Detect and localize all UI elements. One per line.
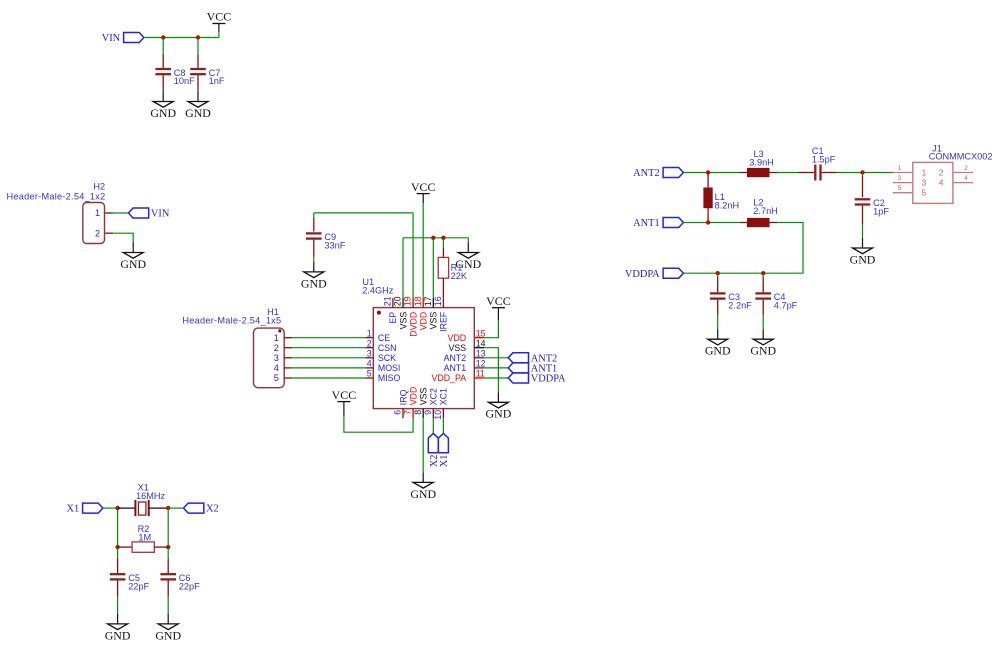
U1 pin 14 VSS stub [474, 347, 484, 349]
wire to C7 [197, 38, 199, 54]
U1 pin 17 VSS stub [432, 298, 434, 308]
inductor L2 [748, 218, 770, 226]
L2 left lead [740, 222, 748, 224]
svg-text:16MHz: 16MHz [136, 491, 166, 501]
svg-text:22pF: 22pF [128, 581, 149, 591]
svg-text:4.7pF: 4.7pF [774, 301, 798, 311]
IC U1 body [373, 308, 474, 409]
wire to R1 [442, 238, 444, 248]
U1 pin 13 ANT2 stub [474, 357, 484, 359]
ground GND (C7) [185, 92, 211, 120]
wire pin 14 VSS to ground [484, 348, 499, 393]
inductor L1 labels [715, 192, 740, 210]
svg-text:1: 1 [274, 333, 279, 343]
wire C4 top [762, 273, 764, 277]
svg-text:GND: GND [185, 106, 211, 120]
wire H1.2 to U1 [292, 347, 365, 349]
svg-text:GND: GND [410, 487, 436, 501]
svg-text:1: 1 [922, 167, 927, 177]
H1 pin 5 stub [284, 377, 292, 379]
junction node C8 [161, 35, 165, 39]
wire pin 20 VSS up [402, 238, 404, 298]
power VCC [207, 10, 232, 32]
svg-text:3: 3 [922, 178, 927, 188]
svg-text:VIN: VIN [151, 209, 170, 220]
svg-text:VDDPA: VDDPA [625, 269, 660, 280]
U1 pin 9 XC2 stub [432, 409, 434, 419]
wire C3 top [717, 273, 719, 277]
connector H2 [83, 203, 105, 244]
L1 bottom lead [707, 208, 709, 223]
svg-text:15: 15 [476, 328, 486, 338]
svg-text:XC2: XC2 [429, 388, 439, 405]
C3 top lead [717, 277, 719, 292]
wire C5 to ground [117, 597, 119, 614]
svg-text:ANT2: ANT2 [633, 168, 660, 179]
crystal X1 [135, 500, 148, 516]
C6 bottom lead [167, 581, 169, 597]
svg-text:8: 8 [413, 410, 423, 415]
junction node X2 [166, 506, 170, 510]
wire DVDD to C9 [314, 212, 413, 214]
net flag ANT1 [633, 218, 683, 230]
wire H2.2 to ground [113, 233, 133, 242]
C3 bottom lead [717, 300, 719, 315]
inductor L2 labels [753, 198, 778, 216]
U1 left pin names and numbers [367, 328, 401, 383]
wire pin 9 to X2 [432, 418, 434, 433]
U1 pin 3 stub [365, 357, 373, 359]
wire VSS rail [403, 237, 468, 239]
wire VCC lead (pin 15) [497, 313, 499, 321]
svg-text:6: 6 [393, 410, 403, 415]
wire C9 to ground [313, 257, 315, 262]
net flag X2 [184, 503, 219, 515]
ground GND (pin 14) [486, 392, 512, 420]
junction node VSS/pin17 [431, 236, 435, 240]
junction node R1 top [441, 236, 445, 240]
C9 bottom lead [313, 240, 315, 257]
svg-text:18: 18 [413, 296, 423, 306]
junction node X1 [115, 506, 119, 510]
capacitor C1 labels [812, 146, 836, 165]
U1 pin 11 VDD_PA stub [474, 377, 484, 379]
U1 pin 19 DVDD stub [412, 298, 414, 308]
net flag ANT1 [508, 363, 557, 375]
C2 top lead [862, 176, 864, 197]
connector H1 [254, 328, 285, 388]
ground GND (C2) [850, 238, 876, 266]
svg-text:XC1: XC1 [439, 388, 449, 405]
resistor R2 labels [138, 524, 152, 543]
wire L2 to VDDPA rail [683, 223, 803, 274]
wire X2 flag [168, 507, 183, 509]
IC U1 labels [362, 277, 394, 295]
capacitor C2 [855, 198, 890, 216]
svg-text:22K: 22K [451, 271, 468, 281]
svg-text:3.9nH: 3.9nH [749, 158, 774, 168]
wire C2 top [862, 173, 864, 177]
H1 pin 3 stub [284, 357, 292, 359]
svg-text:VSS: VSS [448, 343, 466, 353]
ground GND (C5) [105, 614, 131, 642]
svg-text:GND: GND [705, 344, 731, 358]
wire pin 12 to ANT1 [484, 367, 508, 369]
capacitor C9 [306, 232, 346, 250]
wire C7 to ground [197, 91, 199, 92]
wire to C6 [167, 547, 169, 559]
svg-text:5: 5 [898, 185, 902, 192]
svg-text:2: 2 [939, 167, 944, 177]
svg-text:3: 3 [274, 353, 279, 363]
U1 pin 5 stub [365, 377, 373, 379]
U1 pin 8 VSS stub [422, 409, 424, 419]
svg-text:MOSI: MOSI [378, 363, 400, 373]
wire H1.4 to U1 [292, 367, 365, 369]
ground GND (H2) [120, 243, 146, 271]
svg-text:1: 1 [95, 208, 100, 218]
svg-text:VSS: VSS [429, 312, 439, 330]
ground GND (C3) [705, 329, 731, 357]
svg-text:17: 17 [423, 296, 433, 306]
C1 left lead [798, 172, 814, 174]
ground GND (VSS rail) [455, 243, 481, 271]
wire X1 flag [103, 507, 118, 509]
svg-text:9: 9 [423, 410, 433, 415]
inductor L1 [704, 188, 712, 208]
svg-text:1nF: 1nF [209, 76, 225, 86]
svg-text:10nF: 10nF [174, 76, 195, 86]
U1 pin 7 VDD stub [412, 409, 414, 419]
U1 pin 16 IREF stub [442, 298, 444, 308]
wire pin 10 to X1 [442, 418, 444, 433]
ground GND (U1 VSS) [410, 472, 436, 500]
svg-text:1: 1 [367, 328, 372, 338]
svg-text:VCC: VCC [207, 10, 232, 24]
net flag VIN [128, 208, 169, 220]
ground GND (C4) [750, 329, 776, 357]
svg-text:GND: GND [850, 252, 876, 266]
R2 right lead [154, 546, 168, 548]
power VCC [411, 180, 436, 203]
net flag VDDPA [508, 373, 566, 385]
wire H1.1 to U1 [292, 337, 365, 339]
svg-text:33nF: 33nF [324, 241, 345, 251]
C5 bottom lead [117, 581, 119, 597]
capacitor C7 [190, 68, 225, 86]
svg-text:Header-Male-2.54_1x2: Header-Male-2.54_1x2 [7, 192, 106, 202]
H2 pin 1 stub [105, 212, 113, 214]
wire X2 down [167, 508, 169, 547]
C4 top lead [762, 277, 764, 292]
U1 right pin names and numbers [432, 328, 486, 383]
svg-text:ANT2: ANT2 [444, 353, 467, 363]
header H2 labels [7, 181, 106, 201]
svg-text:2.7nH: 2.7nH [753, 206, 778, 216]
wire ANT2 [683, 172, 739, 174]
svg-text:1.5pF: 1.5pF [812, 154, 836, 164]
svg-text:4: 4 [964, 175, 968, 182]
C7 bottom lead [197, 75, 199, 90]
svg-text:4: 4 [939, 178, 944, 188]
svg-text:Header-Male-2.54_1x5: Header-Male-2.54_1x5 [182, 316, 281, 326]
svg-text:7: 7 [403, 410, 413, 415]
svg-text:GND: GND [120, 257, 146, 271]
svg-text:1: 1 [898, 165, 902, 172]
svg-text:3: 3 [898, 175, 902, 182]
ground GND (C8) [150, 92, 176, 120]
svg-text:1pF: 1pF [873, 207, 889, 217]
C7 top lead [197, 54, 199, 68]
R1 bottom lead to pin 16 [442, 278, 444, 298]
svg-text:12: 12 [476, 359, 486, 369]
junction node R2 left [115, 545, 119, 549]
junction node C3 [716, 271, 720, 275]
svg-text:VCC: VCC [411, 180, 436, 194]
svg-text:4: 4 [274, 363, 279, 373]
wire VCC to pin 7 [344, 416, 413, 432]
svg-text:X1: X1 [439, 455, 450, 468]
capacitor C1 [815, 165, 820, 181]
capacitor C5 [110, 573, 150, 591]
wire X1 down [117, 508, 119, 547]
svg-text:4: 4 [367, 359, 372, 369]
U1 pin 12 ANT1 stub [474, 367, 484, 369]
svg-text:VDD: VDD [408, 387, 418, 406]
net flag X1 [438, 433, 450, 467]
svg-text:GND: GND [150, 106, 176, 120]
H1 pin 1 stub [284, 337, 292, 339]
svg-text:GND: GND [301, 276, 327, 290]
power VCC [486, 294, 511, 313]
U1 pin 10 XC1 stub [442, 409, 444, 419]
wire to C5 [117, 547, 119, 559]
wire C2 to ground [862, 224, 864, 238]
junction node ANT2/L1 [706, 170, 710, 174]
svg-text:GND: GND [105, 628, 131, 642]
svg-text:ANT1: ANT1 [444, 363, 467, 373]
H1 pin 2 stub [284, 347, 292, 349]
wire L3 to C1 [777, 172, 798, 174]
wire pin 11 to VDDPA [484, 377, 508, 379]
inductor L3 labels [749, 149, 774, 167]
wire VIN rail [144, 37, 219, 39]
net flag VIN [102, 33, 144, 45]
L3 left lead [740, 172, 748, 174]
junction node ANT1/L1 [706, 220, 710, 224]
wire to C8 [162, 38, 164, 54]
svg-text:CONMMCX002: CONMMCX002 [929, 152, 993, 162]
net flag X1 [66, 503, 102, 515]
svg-text:X1: X1 [66, 504, 79, 515]
junction node C4 [761, 271, 765, 275]
crystal X1 labels [136, 483, 166, 501]
U1 top pin names and numbers [383, 296, 449, 336]
junction node R2 right [166, 545, 170, 549]
svg-text:2.2nF: 2.2nF [728, 301, 752, 311]
wire pin 8 VSS to ground [422, 418, 424, 472]
H1 pin 4 stub [284, 367, 292, 369]
capacitor C3 [710, 292, 752, 310]
svg-text:VIN: VIN [102, 33, 121, 44]
svg-text:19: 19 [403, 296, 413, 306]
svg-text:16: 16 [433, 296, 443, 306]
svg-text:VCC: VCC [332, 388, 357, 402]
L3 right lead [769, 172, 777, 174]
svg-text:22pF: 22pF [179, 581, 200, 591]
svg-text:GND: GND [486, 407, 512, 421]
svg-text:8.2nH: 8.2nH [715, 200, 740, 210]
H2 pin 2 stub [105, 232, 113, 234]
svg-text:1M: 1M [138, 533, 151, 543]
wire H1.5 to U1 [292, 377, 365, 379]
wire C9 to pin 19 [412, 213, 414, 298]
svg-text:VDD: VDD [448, 333, 467, 343]
svg-text:2: 2 [274, 343, 279, 353]
wire VCC to pin 18 [422, 203, 424, 298]
wire C9 top [313, 213, 315, 217]
svg-text:VCC: VCC [486, 294, 511, 308]
svg-text:MISO: MISO [378, 373, 401, 383]
U1 pin 1 stub [365, 337, 373, 339]
wire C1 to J1 [837, 172, 894, 174]
svg-text:3: 3 [367, 348, 372, 358]
wire VCC lead [218, 32, 220, 38]
C9 top lead [313, 217, 315, 231]
C8 top lead [162, 54, 164, 68]
wire ANT1 [683, 222, 740, 224]
connector J1 labels [929, 143, 993, 161]
capacitor C8 [155, 68, 195, 86]
svg-text:11: 11 [476, 369, 485, 379]
svg-text:GND: GND [750, 344, 776, 358]
net flag VDDPA [625, 268, 684, 280]
svg-text:CSN: CSN [378, 343, 397, 353]
C1 right lead [822, 172, 837, 174]
U1 pin 15 VDD stub [474, 337, 484, 339]
resistor R1 [438, 257, 468, 280]
svg-text:20: 20 [393, 296, 403, 306]
wire VCC to pin 15 [484, 320, 499, 337]
svg-text:2: 2 [95, 228, 100, 238]
resistor R2 [132, 542, 154, 552]
svg-text:VSS: VSS [419, 387, 429, 405]
U1 pin 21 EP stub [392, 298, 394, 308]
C2 bottom lead [862, 206, 864, 224]
U1 pin 20 VSS stub [402, 298, 404, 308]
U1 pin 18 VDD stub [422, 298, 424, 308]
crystal X1 right lead [149, 507, 169, 509]
wire C4 to ground [762, 315, 764, 329]
svg-text:ANT1: ANT1 [633, 218, 660, 229]
U1 pin 6 IRQ stub [402, 409, 404, 419]
C5 top lead [117, 559, 119, 574]
crystal X1 left lead [118, 507, 136, 509]
svg-text:VDD_PA: VDD_PA [432, 373, 467, 383]
svg-text:13: 13 [476, 348, 486, 358]
U1 pin 4 stub [365, 367, 373, 369]
ground GND (C6) [155, 614, 181, 642]
svg-text:GND: GND [155, 628, 181, 642]
ground GND (C9) [301, 262, 327, 290]
svg-text:DVDD: DVDD [408, 312, 418, 337]
svg-text:5: 5 [274, 373, 279, 383]
svg-text:VSS: VSS [398, 312, 408, 330]
svg-text:VDD: VDD [419, 312, 429, 331]
R1 top lead [442, 248, 444, 258]
svg-text:2: 2 [367, 338, 372, 348]
svg-text:SCK: SCK [378, 353, 396, 363]
wire C8 to ground [162, 91, 164, 92]
net flag ANT2 [508, 353, 557, 365]
U1 bottom pin names and numbers [393, 387, 449, 420]
U1 pin 2 stub [365, 347, 373, 349]
capacitor C6 [160, 573, 200, 591]
junction node C7 [196, 35, 200, 39]
svg-text:VDDPA: VDDPA [531, 374, 566, 385]
svg-text:IRQ: IRQ [398, 389, 408, 405]
svg-text:14: 14 [476, 338, 486, 348]
svg-text:CE: CE [378, 333, 390, 343]
svg-text:5: 5 [367, 369, 372, 379]
svg-text:10: 10 [433, 410, 443, 420]
wire C3 to ground [717, 315, 719, 329]
net flag ANT2 [633, 168, 683, 180]
header H1 labels [182, 307, 281, 326]
R2 left lead [118, 546, 133, 548]
net flag X2 [428, 433, 440, 467]
wire H2.1 to VIN [113, 212, 128, 214]
C4 bottom lead [762, 300, 764, 315]
C8 bottom lead [162, 75, 164, 90]
L2 right lead [769, 222, 777, 224]
wire pin 13 to ANT2 [484, 357, 508, 359]
C6 top lead [167, 559, 169, 574]
wire C6 to ground [167, 597, 169, 614]
svg-text:2.4GHz: 2.4GHz [362, 285, 394, 295]
svg-text:H2: H2 [93, 181, 105, 191]
wire rail to ground [467, 238, 469, 243]
wire H1.3 to U1 [292, 357, 365, 359]
svg-text:5: 5 [922, 188, 927, 198]
svg-text:21: 21 [383, 296, 393, 306]
svg-text:IREF: IREF [439, 311, 449, 332]
capacitor C4 [755, 292, 797, 310]
L1 top lead [707, 173, 709, 189]
svg-text:2: 2 [964, 165, 968, 172]
inductor L3 [748, 168, 770, 176]
svg-text:X2: X2 [206, 504, 219, 515]
junction node C2 [860, 170, 864, 174]
svg-text:EP: EP [388, 312, 398, 324]
power VCC [332, 388, 357, 416]
wire pin 17 VSS up [432, 238, 434, 298]
connector J1 [893, 162, 973, 203]
